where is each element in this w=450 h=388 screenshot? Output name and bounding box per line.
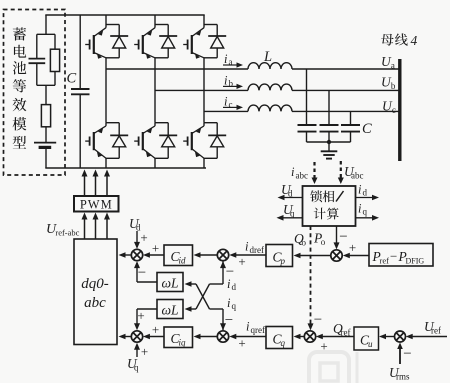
svg-text:qref: qref	[251, 325, 266, 335]
svg-text:ωL: ωL	[162, 303, 179, 318]
sign plus C_id	[152, 241, 159, 256]
svg-text:−: −	[339, 229, 347, 245]
wire phase b to bus	[292, 89, 400, 91]
wire omegaL upper to d summer	[134, 261, 157, 282]
IGBT Q1 upper with diode	[85, 15, 128, 59]
IGBT Q4 lower with diode	[85, 123, 128, 168]
label i_d feedback	[227, 277, 237, 292]
svg-text:i: i	[224, 94, 228, 108]
label P_o	[313, 231, 326, 248]
summing junction q-axis right	[217, 331, 228, 342]
label U_c	[382, 99, 396, 116]
label U_q feedforward	[127, 356, 139, 373]
sign plus U_d	[140, 230, 147, 245]
sign plus idref	[238, 254, 245, 269]
IGBT Q2 upper with diode	[134, 15, 177, 59]
svg-text:L: L	[263, 49, 272, 65]
svg-text:q: q	[134, 363, 139, 373]
wire phase c to bus	[292, 110, 400, 112]
sign plus iqref	[238, 336, 245, 351]
label i_dref	[245, 240, 264, 256]
sign minus i_d	[226, 264, 234, 280]
svg-text:ref: ref	[431, 326, 441, 336]
wires PWM to inverter arrows	[82, 170, 111, 197]
wire phase c	[204, 110, 248, 112]
sign plus U_q	[141, 344, 148, 359]
battery equivalent model dashed box	[4, 10, 66, 176]
sign minus Q_o	[314, 312, 322, 328]
block C_iq	[164, 327, 193, 348]
sign minus omegaL upper	[138, 265, 146, 281]
block C_p	[266, 245, 293, 267]
svg-text:q: q	[281, 338, 286, 348]
wire phase a	[106, 68, 248, 70]
summing junction U	[395, 331, 406, 342]
sign plus omegaL lower	[137, 308, 144, 323]
label U_d feedforward	[129, 216, 141, 233]
svg-text:dq0-: dq0-	[81, 276, 109, 292]
wire q summer to C_iq arrow	[194, 334, 218, 340]
resistor battery-internal parallel	[50, 34, 59, 85]
svg-text:DFIG: DFIG	[406, 257, 425, 266]
label U_rms	[389, 365, 410, 382]
bus bar 母线4	[398, 59, 401, 161]
wire d summer to C_id	[194, 252, 218, 258]
capacitor filter c	[341, 125, 360, 142]
svg-text:−: −	[403, 346, 411, 362]
label L	[263, 49, 272, 65]
svg-text:i: i	[224, 52, 228, 66]
wire i_abc dashed arrow	[312, 162, 318, 184]
svg-text:o: o	[302, 238, 307, 248]
label i_q feedback	[227, 296, 237, 311]
label i_abc	[291, 165, 308, 181]
svg-text:i: i	[227, 296, 231, 310]
svg-text:dref: dref	[250, 245, 265, 255]
wire i_q feedback and cross to upper omegaL	[185, 281, 227, 330]
label U_ref	[424, 319, 441, 336]
svg-text:d: d	[232, 282, 237, 292]
svg-text:d: d	[363, 188, 368, 198]
label Q_ref	[333, 321, 351, 338]
block omega-L lower	[157, 300, 183, 319]
wire U_ref to U summer	[406, 334, 447, 340]
inductor L phase a	[248, 63, 292, 69]
svg-text:PWM: PWM	[80, 198, 113, 212]
wire U_d down arrow	[134, 231, 140, 249]
svg-text:iq: iq	[179, 338, 187, 348]
svg-text:b: b	[391, 81, 396, 91]
wire leg c midsection	[203, 58, 205, 123]
sign minus U_rms	[403, 346, 411, 362]
label U_d output with arrow	[278, 182, 303, 200]
block PWM	[74, 196, 119, 212]
svg-text:−: −	[138, 265, 146, 281]
wire C_q to q summer	[229, 334, 266, 340]
svg-text:4: 4	[411, 33, 418, 48]
label i_qref	[246, 320, 265, 336]
capacitor filter b	[320, 125, 339, 142]
svg-text:c: c	[392, 105, 396, 115]
label C filter	[362, 121, 372, 137]
svg-text:i: i	[224, 73, 228, 87]
svg-text:+: +	[152, 241, 159, 256]
svg-text:i: i	[358, 183, 362, 197]
inductor L phase c	[248, 105, 292, 111]
svg-text:i: i	[291, 165, 295, 179]
svg-text:+: +	[141, 344, 148, 359]
svg-text:ωL: ωL	[162, 276, 179, 291]
svg-text:+: +	[152, 322, 159, 337]
sign plus Q_ref	[320, 339, 327, 354]
wire leg b midsection	[154, 58, 156, 123]
wire U_rms up arrow	[397, 343, 403, 365]
svg-text:u: u	[368, 339, 373, 349]
block C_q	[266, 327, 293, 349]
IGBT Q3 upper with diode	[183, 15, 226, 59]
wire phase a to bus	[292, 68, 400, 70]
wire P summer to Cp	[294, 253, 331, 259]
summing junction P	[331, 250, 342, 261]
label U_q output with arrow	[277, 202, 303, 221]
summing junction d-axis right	[217, 249, 228, 260]
block P_ref - P_DFIG	[369, 244, 433, 267]
wire q summer to dq0 block	[119, 334, 132, 340]
block omega-L upper	[157, 273, 183, 292]
svg-text:−: −	[390, 249, 397, 264]
label Q_o	[294, 231, 307, 248]
block dq0-abc	[74, 239, 117, 345]
wire phase b	[155, 89, 248, 91]
label 母线 4	[381, 33, 417, 48]
svg-text:−: −	[225, 313, 233, 329]
label i_c with arrow	[223, 94, 243, 110]
wire Cp to d summer	[229, 252, 266, 258]
sign minus i_q	[225, 313, 233, 329]
sign minus P_o	[339, 229, 347, 245]
svg-text:i: i	[246, 320, 250, 334]
block 锁相/计算 (PLL/calc)	[303, 186, 356, 226]
svg-text:o: o	[321, 237, 326, 247]
summing junction q-axis left	[131, 331, 142, 342]
label i_d output with arrow	[356, 183, 380, 201]
svg-text:abc: abc	[351, 171, 364, 181]
label 蓄电池等效模型 (vertical)	[12, 27, 26, 148]
svg-text:rms: rms	[396, 372, 410, 382]
svg-text:id: id	[179, 256, 187, 266]
label i_q output with arrow	[356, 202, 380, 221]
label U_ref-abc	[46, 222, 80, 238]
label U_a	[381, 54, 395, 71]
wire C_iq to q summer	[143, 334, 164, 340]
wire DC bottom rail	[45, 167, 206, 169]
wire leg a midsection	[105, 58, 107, 123]
wire U_q up arrow	[134, 343, 140, 357]
watermark logo faint	[309, 352, 357, 388]
wire cap common	[307, 141, 351, 143]
wire DC top rail	[45, 14, 204, 16]
svg-text:−: −	[314, 312, 322, 328]
svg-text:i: i	[227, 277, 231, 291]
sign plus C_iq	[152, 322, 159, 337]
summing junction d-axis left	[131, 249, 142, 260]
svg-text:ref: ref	[380, 256, 390, 266]
svg-text:p: p	[280, 256, 286, 266]
sign plus Pref	[349, 240, 356, 255]
svg-text:+: +	[238, 254, 245, 269]
svg-text:i: i	[358, 202, 362, 216]
wire cap tap a	[306, 69, 308, 125]
svg-text:+: +	[349, 240, 356, 255]
block C_id	[164, 245, 193, 266]
wire parallel-section top	[37, 33, 55, 35]
wire omegaL lower to q summer	[134, 309, 157, 330]
wire C_id to d summer left	[143, 252, 164, 258]
label i_b with arrow	[223, 73, 243, 89]
svg-text:C: C	[67, 71, 77, 87]
wire parallel-section bottom	[37, 84, 55, 86]
svg-text:+: +	[140, 230, 147, 245]
battery cell symbol	[34, 143, 56, 168]
block C_u voltage controller	[354, 327, 379, 350]
capacitor filter a	[298, 125, 317, 142]
capacitor C dc-link	[71, 15, 90, 168]
label U_b	[381, 75, 396, 92]
wire Q summer to C_q	[294, 334, 305, 340]
wire cap tap c	[350, 111, 352, 124]
svg-text:abc: abc	[296, 171, 309, 181]
IGBT Q5 lower with diode	[134, 123, 177, 168]
inductor L phase b	[248, 84, 292, 90]
wire U summer to C_u	[379, 334, 394, 340]
svg-text:abc: abc	[84, 295, 106, 311]
wire i_d feedback and cross to lower omegaL	[185, 261, 227, 312]
label U_abc	[344, 164, 364, 181]
svg-text:i: i	[245, 240, 249, 254]
resistor battery-internal series	[41, 85, 50, 142]
svg-text:a: a	[391, 61, 395, 71]
wire Pref box to P summer	[343, 253, 369, 259]
label i_a with arrow	[223, 52, 243, 68]
wire C_u to Q summer	[316, 334, 354, 340]
summing junction Q	[304, 331, 315, 342]
label C dc-link	[67, 71, 77, 87]
svg-text:ref-abc: ref-abc	[55, 228, 79, 238]
wire U_abc dashed arrow	[338, 161, 344, 184]
svg-text:C: C	[362, 121, 372, 137]
svg-text:q: q	[232, 301, 237, 311]
wire cap tap b	[328, 90, 330, 124]
IGBT Q6 lower with diode	[183, 123, 226, 168]
wire d summer to dq0 block	[119, 252, 132, 258]
junction dot	[327, 140, 331, 144]
wire P_o arrow to P summer	[334, 226, 340, 249]
svg-text:q: q	[290, 209, 295, 219]
svg-text:+: +	[137, 308, 144, 323]
wires dq0 to PWM arrows	[82, 213, 111, 240]
svg-text:+: +	[238, 336, 245, 351]
wire Q_o dashed	[308, 226, 314, 330]
wire battery top	[45, 15, 47, 34]
capacitor battery-internal	[29, 34, 46, 85]
ground	[321, 142, 338, 159]
svg-text:q: q	[363, 207, 368, 217]
